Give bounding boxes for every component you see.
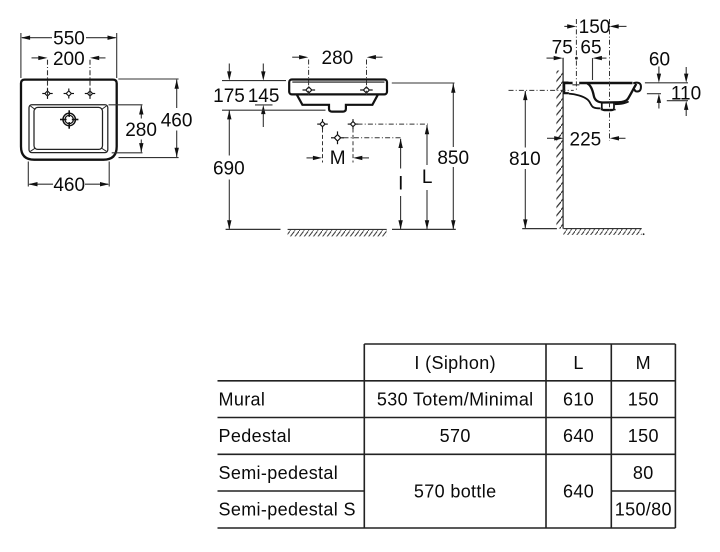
floor line right of wall <box>563 228 641 230</box>
table column line 3 <box>610 344 612 528</box>
basin side profile: top rim <box>564 82 633 84</box>
dimension 145 <box>255 64 273 128</box>
basin outline front view <box>21 80 117 160</box>
basin side profile: underside front <box>615 101 629 104</box>
dimension M <box>307 157 370 159</box>
drain symbol front view <box>60 110 78 128</box>
svg-text:M: M <box>636 353 651 373</box>
svg-text:850: 850 <box>437 148 469 169</box>
dimension 810 <box>524 91 526 228</box>
svg-text:Semi-pedestal S: Semi-pedestal S <box>219 500 356 520</box>
svg-text:L: L <box>422 167 433 188</box>
fixing hole level centerline <box>509 89 574 91</box>
table row line 4 right <box>611 490 675 492</box>
siphon hole center <box>331 131 344 144</box>
svg-text:Semi-pedestal: Semi-pedestal <box>219 463 339 483</box>
floor line right middle view <box>392 228 456 230</box>
dimension 850 <box>392 83 455 229</box>
svg-text:570: 570 <box>440 426 471 446</box>
floor hatch end dot <box>643 233 645 235</box>
svg-text:640: 640 <box>563 426 594 446</box>
svg-text:280: 280 <box>322 48 354 69</box>
svg-text:550: 550 <box>53 29 85 50</box>
dimension 60 <box>645 67 688 109</box>
svg-text:175: 175 <box>213 86 245 107</box>
svg-text:640: 640 <box>563 482 594 502</box>
extension line 175 bottom <box>222 109 326 111</box>
floor line left middle view <box>226 228 281 230</box>
centerline faucet axis right view <box>575 19 577 91</box>
table column line 2 <box>545 344 547 528</box>
svg-text:150: 150 <box>628 389 659 409</box>
svg-text:L: L <box>573 353 583 373</box>
floor line left of wall <box>522 228 557 230</box>
table row line 2 <box>218 417 676 419</box>
dimension 280 front <box>109 105 143 153</box>
rim inner line <box>292 81 384 83</box>
floor hatch right view <box>563 229 641 235</box>
svg-text:610: 610 <box>563 389 594 409</box>
svg-text:530 Totem/Minimal: 530 Totem/Minimal <box>377 389 534 409</box>
dimension 460 right <box>118 79 178 158</box>
svg-text:150/80: 150/80 <box>615 500 672 520</box>
inner basin rim outer edge <box>29 105 108 153</box>
dimension I <box>400 139 402 229</box>
svg-text:150: 150 <box>579 17 611 38</box>
faucet hole slot in rim <box>573 81 580 84</box>
svg-text:225: 225 <box>570 130 602 151</box>
svg-text:75: 75 <box>552 38 573 59</box>
svg-text:60: 60 <box>649 49 670 70</box>
dimension 225 <box>547 137 626 139</box>
centerline drain axis right view <box>609 19 611 141</box>
svg-text:145: 145 <box>248 86 280 107</box>
centerline through left faucet hole <box>308 60 310 96</box>
table bottom border <box>218 527 676 529</box>
centerline from fixing holes to L <box>358 123 429 125</box>
centerline through right faucet hole <box>366 60 368 96</box>
table right border <box>674 344 676 528</box>
dimension 550 <box>21 33 117 78</box>
dimension 150 <box>564 25 626 27</box>
faucet hole right middle view <box>360 87 373 93</box>
dimension L <box>426 125 428 229</box>
dimension 175 <box>222 64 286 81</box>
faucet hole right <box>85 89 95 99</box>
table top border <box>364 343 675 345</box>
dimension 280 middle <box>292 56 382 58</box>
svg-text:810: 810 <box>509 149 541 170</box>
dimension 200 <box>32 58 106 99</box>
table row line 4 left <box>218 490 365 492</box>
wall face line <box>562 58 564 229</box>
basin side profile: bowl interior <box>587 83 636 102</box>
rim corner tick bottom-left <box>30 148 35 151</box>
faucet hole center <box>64 89 74 99</box>
svg-text:690: 690 <box>213 158 245 179</box>
floor hatch middle view <box>288 228 387 230</box>
svg-text:110: 110 <box>671 84 701 105</box>
centerline from siphon hole to I <box>344 137 402 139</box>
dimension 75/65 arrow tails and extension line <box>547 58 607 80</box>
svg-text:570 bottle: 570 bottle <box>414 482 497 502</box>
basin side profile: wall bracket <box>564 83 569 94</box>
inner basin rim inner edge <box>34 107 103 149</box>
extension dashes for M right <box>352 129 354 163</box>
svg-text:460: 460 <box>53 175 85 196</box>
table column line 1 <box>363 344 365 528</box>
basin side profile: underside rear <box>569 94 601 109</box>
svg-text:200: 200 <box>53 49 85 70</box>
svg-text:Mural: Mural <box>219 389 266 409</box>
faucet hole left middle view <box>303 87 316 93</box>
dimension 460 bottom <box>28 162 109 187</box>
svg-text:80: 80 <box>633 463 654 483</box>
basin rim middle view <box>289 80 387 95</box>
rim corner tick bottom-right <box>101 148 106 151</box>
rim corner tick top-left <box>30 106 35 110</box>
apron and drain stub middle view <box>297 95 378 112</box>
basin side profile: drain stub <box>602 103 614 110</box>
extension dashes for M left <box>322 129 324 163</box>
svg-text:460: 460 <box>161 110 193 131</box>
faucet hole left <box>42 89 52 99</box>
dimension 110 <box>667 67 688 116</box>
svg-text:65: 65 <box>580 38 601 59</box>
basin side profile: front rolled edge <box>633 83 641 92</box>
dimension 690 <box>228 110 230 229</box>
svg-text:I (Siphon): I (Siphon) <box>414 353 496 373</box>
table row line 1 <box>218 380 676 382</box>
table row line 3 <box>218 453 676 455</box>
svg-text:150: 150 <box>628 426 659 446</box>
wall hatch <box>556 71 563 229</box>
wall fixing hole right <box>348 119 359 129</box>
svg-text:280: 280 <box>125 120 157 141</box>
wall fixing hole left <box>317 119 328 129</box>
svg-text:M: M <box>330 148 346 169</box>
svg-text:I: I <box>398 173 403 194</box>
rim corner tick top-right <box>101 106 106 110</box>
svg-text:Pedestal: Pedestal <box>219 426 292 446</box>
